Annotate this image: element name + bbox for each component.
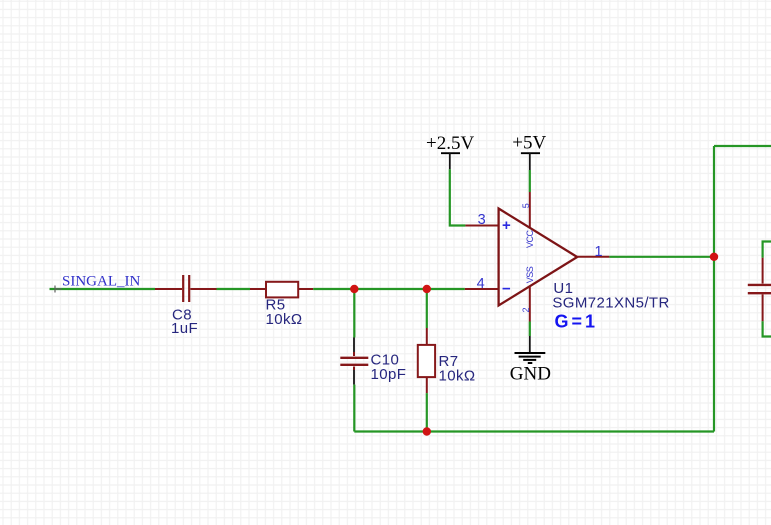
- pin 1 stub: [577, 256, 609, 258]
- svg-text:2: 2: [521, 307, 531, 312]
- pin 4 stub: [465, 288, 498, 290]
- wire: [50, 288, 156, 290]
- junction: [423, 427, 431, 435]
- wire: [353, 385, 355, 432]
- wire (right cap bottom): [763, 321, 771, 336]
- node A: [55, 286, 62, 293]
- wire: [529, 322, 531, 337]
- wire: [313, 288, 465, 290]
- wire (output): [609, 256, 714, 258]
- svg-text:10kΩ: 10kΩ: [266, 311, 303, 328]
- junction: [350, 285, 358, 293]
- svg-text:VSS: VSS: [525, 266, 535, 283]
- pin 2 stub: [529, 286, 531, 322]
- svg-text:1: 1: [595, 244, 603, 260]
- svg-text:VCC: VCC: [525, 229, 535, 248]
- wire: [353, 289, 355, 338]
- svg-text:4: 4: [477, 276, 485, 292]
- wire (right cap top): [763, 242, 771, 258]
- wire: [426, 393, 428, 431]
- svg-text:SGM721XN5/TR: SGM721XN5/TR: [552, 294, 669, 311]
- wire (feedback bottom): [354, 430, 714, 432]
- pin 5 stub: [529, 192, 531, 228]
- junction: [423, 285, 431, 293]
- wire: [450, 169, 466, 225]
- svg-text:+2.5V: +2.5V: [426, 133, 474, 154]
- ground: [510, 336, 551, 384]
- svg-text:GND: GND: [510, 363, 551, 384]
- wire: [217, 288, 251, 290]
- power +5V: [512, 133, 546, 171]
- svg-text:1uF: 1uF: [171, 320, 198, 337]
- wire: [426, 289, 428, 328]
- svg-text:+: +: [502, 217, 511, 234]
- svg-text:SINGAL_IN: SINGAL_IN: [62, 274, 140, 290]
- svg-text:5: 5: [521, 203, 531, 208]
- wire (right riser): [713, 146, 715, 432]
- svg-text:−: −: [502, 281, 511, 298]
- svg-text:10pF: 10pF: [371, 366, 407, 383]
- op-amp U1: [499, 209, 670, 332]
- capacitor C10: [340, 338, 406, 385]
- wire (top right): [714, 145, 771, 147]
- pin 3 stub: [465, 225, 498, 227]
- capacitor C8: [155, 275, 217, 337]
- junction: [710, 253, 718, 261]
- svg-text:10kΩ: 10kΩ: [439, 367, 476, 384]
- power +2.5V: [426, 133, 474, 169]
- svg-text:G=1: G=1: [555, 312, 599, 332]
- resistor R7: [418, 328, 476, 393]
- capacitor C? (right edge): [748, 258, 771, 322]
- wire: [529, 170, 531, 192]
- svg-text:3: 3: [478, 212, 486, 228]
- svg-text:+5V: +5V: [512, 133, 546, 154]
- resistor R5: [250, 282, 313, 328]
